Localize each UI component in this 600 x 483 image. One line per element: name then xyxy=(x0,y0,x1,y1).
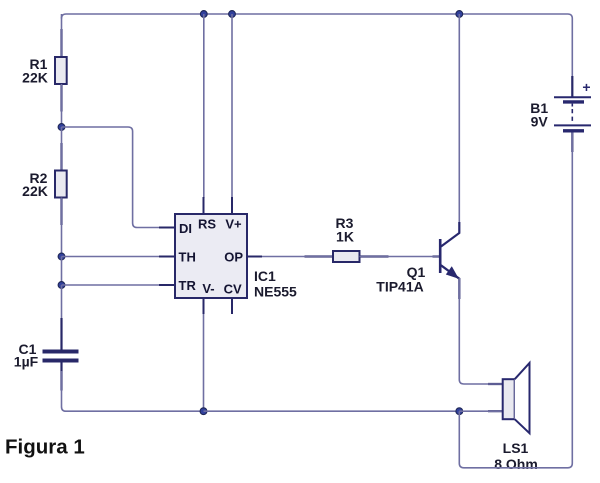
speaker LS1 xyxy=(503,363,530,433)
wire R2 to node TH xyxy=(61,198,63,257)
wire V- to bottom rail xyxy=(203,314,205,411)
svg-text:IC1: IC1 xyxy=(254,268,276,284)
wire node TH to node TR xyxy=(61,257,63,286)
wire node A to R2 xyxy=(61,127,63,171)
svg-text:RS: RS xyxy=(198,217,216,232)
label B1 9V xyxy=(530,100,548,130)
svg-text:TH: TH xyxy=(179,250,196,265)
svg-text:8 Ohm: 8 Ohm xyxy=(494,456,538,472)
wire emitter to LS1 upper terminal xyxy=(459,278,502,384)
svg-text:TR: TR xyxy=(179,278,197,293)
junction dot top V+ xyxy=(229,11,236,18)
svg-text:22K: 22K xyxy=(22,183,48,199)
pin RS stub xyxy=(203,197,205,214)
svg-text:V+: V+ xyxy=(225,217,242,232)
junction dot speaker node xyxy=(456,408,463,415)
speaker LS1 lead stubs xyxy=(488,384,503,411)
label R2 22K xyxy=(22,170,48,199)
pin V- stub xyxy=(203,298,205,314)
wire node TH to TH pin xyxy=(62,256,161,258)
svg-text:DI: DI xyxy=(179,221,192,236)
wire C1 to bottom rail xyxy=(62,371,204,411)
battery B1 xyxy=(554,97,591,131)
svg-text:LS1: LS1 xyxy=(503,440,529,456)
wire OP to R3 xyxy=(262,256,333,258)
label Q1 TIP41A xyxy=(376,264,425,295)
junction dot node TH xyxy=(58,253,65,260)
pin TH stub xyxy=(159,256,175,258)
svg-text:1K: 1K xyxy=(336,229,354,245)
wire RS drop xyxy=(203,14,205,198)
wire top V+ rail xyxy=(62,14,573,97)
svg-text:V-: V- xyxy=(202,281,214,296)
svg-text:22K: 22K xyxy=(22,70,48,86)
resistor R2 xyxy=(55,171,67,198)
svg-text:Figura 1: Figura 1 xyxy=(5,436,85,459)
pin OP stub xyxy=(247,256,262,258)
wire node TR to C1 xyxy=(61,285,63,342)
battery B1 leads xyxy=(571,76,573,152)
junction dot V- bottom xyxy=(200,408,207,415)
svg-text:+: + xyxy=(582,79,590,95)
transistor Q1 xyxy=(440,222,459,299)
resistor R3 leads xyxy=(305,255,389,257)
pin DI stub xyxy=(159,227,175,229)
capacitor C1 leads xyxy=(60,318,62,391)
wire speaker node to bottom right rail xyxy=(459,131,572,468)
wire R3 to Q1 base xyxy=(360,256,440,258)
svg-text:CV: CV xyxy=(224,282,242,297)
junction dot node TR xyxy=(58,282,65,289)
resistor R1 leads xyxy=(60,29,62,112)
wire left rail top segment xyxy=(61,14,63,57)
svg-text:1µF: 1µF xyxy=(14,354,39,370)
op IC1 NE555 body xyxy=(175,214,247,298)
junction dot top collector xyxy=(456,11,463,18)
wire collector drop xyxy=(458,14,460,232)
resistor R2 leads xyxy=(60,143,62,225)
wire R1 to node A xyxy=(61,84,63,127)
junction dot node A xyxy=(58,124,65,131)
resistor R3 xyxy=(333,251,360,262)
junction dot top RS xyxy=(200,11,207,18)
resistor R1 xyxy=(55,57,67,84)
svg-text:NE555: NE555 xyxy=(254,284,297,300)
wire speaker node to LS1 lower terminal xyxy=(459,410,502,412)
pin CV stub xyxy=(231,298,233,314)
label C1 1uF xyxy=(14,341,39,370)
pin TR stub xyxy=(159,284,175,286)
transistor Q1 base lead xyxy=(433,255,440,257)
svg-text:TIP41A: TIP41A xyxy=(376,279,423,295)
label IC1 NE555 xyxy=(254,268,297,300)
svg-text:9V: 9V xyxy=(531,114,549,130)
wire node A to DI xyxy=(62,127,161,228)
label R1 22K xyxy=(22,56,48,86)
label LS1 8 Ohm xyxy=(494,440,538,472)
wire bottom rail to speaker node xyxy=(204,410,460,412)
capacitor C1 xyxy=(43,352,79,361)
wire node TR to TR pin xyxy=(62,284,161,286)
pin V+ stub xyxy=(231,197,233,214)
svg-text:OP: OP xyxy=(224,250,243,265)
label R3 1K xyxy=(336,215,354,245)
pin labels IC1 xyxy=(179,217,244,297)
wire V+ drop xyxy=(231,14,233,198)
